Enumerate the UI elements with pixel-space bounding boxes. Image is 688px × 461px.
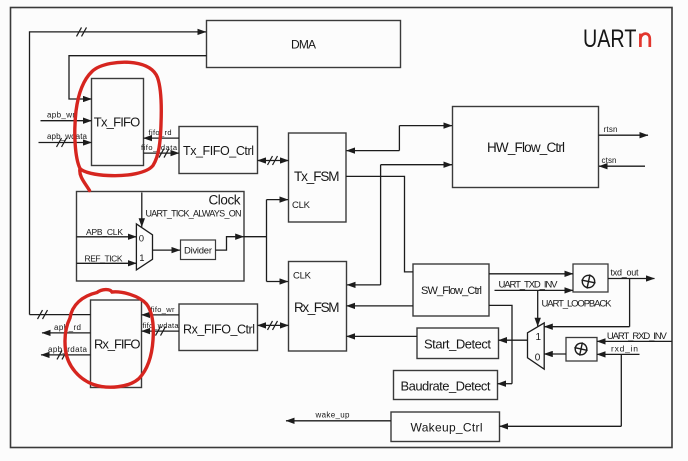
svg-text:Tx_FSM: Tx_FSM: [294, 169, 340, 184]
wire Divider output to clock box edge: [216, 237, 236, 250]
rxd_in input: [597, 344, 640, 355]
fifo_wr wire: [142, 305, 180, 315]
block Rx_FIFO_Ctrl: [179, 304, 258, 351]
svg-text:Rx_FIFO: Rx_FIFO: [94, 337, 141, 352]
fifo_rdata wire: [141, 143, 179, 158]
svg-text:Tx_FIFO_Ctrl: Tx_FIFO_Ctrl: [183, 144, 254, 158]
wire Tx_FIFO_Ctrl to Tx_FSM bidirectional: [258, 156, 289, 165]
block Tx_FIFO: [92, 79, 144, 166]
svg-text:ctsn: ctsn: [602, 156, 617, 165]
block Tx_FIFO_Ctrl: [179, 127, 258, 174]
wire SW_Flow_Ctrl to Rx_FSM: [347, 305, 414, 307]
wire DMA to Tx_FIFO: [69, 56, 207, 99]
svg-text:1: 1: [139, 253, 144, 264]
block SW_Flow_Ctrl: [413, 264, 489, 316]
wire HW_Flow_Ctrl to Rx_FSM: [347, 165, 452, 285]
svg-text:fifo_wr: fifo_wr: [151, 305, 176, 314]
svg-text:UART_LOOPBACK: UART_LOOPBACK: [542, 299, 613, 310]
wire Tx_FSM to SW_Flow_Ctrl: [346, 176, 413, 272]
ctsn input: [599, 156, 645, 166]
svg-text:UART: UART: [583, 25, 637, 53]
svg-text:APB_CLK: APB_CLK: [86, 227, 123, 237]
block Baudrate_Detect: [394, 371, 498, 400]
wake_up output: [286, 410, 391, 421]
wire mux to Divider: [153, 249, 181, 251]
svg-text:rtsn: rtsn: [604, 125, 618, 134]
wire apb bus to DMA: [30, 32, 207, 315]
svg-text:REF_TICK: REF_TICK: [85, 253, 123, 263]
svg-text:DMA: DMA: [291, 38, 316, 52]
fifo_rd wire: [144, 128, 180, 138]
block Wakeup_Ctrl: [391, 412, 500, 442]
svg-text:Tx_FIFO: Tx_FIFO: [94, 115, 141, 130]
block Start_Detect: [417, 328, 499, 359]
block Clock: [77, 192, 245, 282]
block Rx_FSM: [289, 262, 347, 352]
svg-text:1: 1: [536, 332, 542, 343]
svg-text:SW_Flow_Ctrl: SW_Flow_Ctrl: [421, 285, 482, 297]
svg-text:Divider: Divider: [184, 246, 212, 257]
UART_LOOPBACK select wire: [538, 290, 612, 326]
svg-text:UART_RXD_INV: UART_RXD_INV: [607, 331, 668, 342]
svg-text:0: 0: [139, 234, 144, 245]
title UARTn: [583, 25, 650, 53]
loopback mux: [528, 323, 545, 369]
fifo_wdata wire: [142, 321, 180, 335]
svg-text:Wakeup_Ctrl: Wakeup_Ctrl: [411, 421, 483, 435]
wire SW_Flow_Ctrl to xor U1: [489, 273, 573, 275]
svg-text:apb_rdata: apb_rdata: [48, 345, 88, 354]
wire mux to Start_Detect: [499, 339, 528, 341]
svg-text:fifo_wdata: fifo_wdata: [143, 321, 180, 330]
txd_out output: [608, 268, 655, 279]
xor gate U1 txd: [573, 264, 608, 292]
bus slash bottom: [38, 310, 48, 319]
svg-text:apb_wdata: apb_wdata: [47, 132, 88, 141]
apb_wdata input: [39, 132, 92, 147]
mux clock select wire UART_TICK_ALWAYS_ON: [141, 193, 143, 227]
wire clock distribution: [244, 200, 288, 282]
wire xor U2 to mux input 0: [544, 353, 566, 355]
red annotation circle around Tx_FIFO: [75, 62, 161, 190]
bus slash top: [77, 27, 87, 36]
xor gate U2 rxd: [566, 338, 597, 362]
rtsn output: [599, 125, 649, 135]
svg-text:Baudrate_Detect: Baudrate_Detect: [401, 379, 491, 394]
UART_TXD_INV input: [495, 279, 574, 290]
wire rxd to Wakeup_Ctrl: [500, 354, 622, 426]
svg-text:CLK: CLK: [293, 271, 312, 282]
svg-text:Start_Detect: Start_Detect: [424, 337, 491, 352]
block Divider: [181, 240, 216, 260]
wire Tx_FSM to HW_Flow_Ctrl: [347, 126, 453, 151]
svg-text:CLK: CLK: [292, 200, 311, 211]
svg-text:Rx_FSM: Rx_FSM: [294, 300, 340, 315]
svg-text:UART_TICK_ALWAYS_ON: UART_TICK_ALWAYS_ON: [146, 209, 242, 219]
svg-text:HW_Flow_Ctrl: HW_Flow_Ctrl: [487, 140, 565, 155]
svg-text:UART_TXD_INV: UART_TXD_INV: [499, 279, 559, 290]
svg-text:apb_wr: apb_wr: [47, 110, 75, 119]
block HW_Flow_Ctrl: [453, 107, 599, 188]
loopback wire txd to mux input 1: [544, 279, 629, 327]
wire Start_Detect to Rx_FSM: [347, 335, 418, 337]
apb_rd output: [42, 323, 91, 333]
block Tx_FSM: [289, 133, 347, 222]
svg-text:Rx_FIFO_Ctrl: Rx_FIFO_Ctrl: [183, 323, 255, 337]
red annotation circle around Rx_FIFO: [65, 290, 153, 388]
UART_RXD_INV input: [597, 331, 672, 342]
block DMA: [207, 21, 401, 68]
svg-text:rxd_in: rxd_in: [611, 344, 638, 354]
REF_TICK input: [77, 253, 137, 263]
svg-text:0: 0: [535, 353, 541, 364]
wire Rx_FIFO_Ctrl to Rx_FSM bidirectional: [258, 321, 289, 330]
apb_wr input: [41, 110, 92, 120]
clock mux: [136, 224, 152, 270]
apb_rdata output: [41, 345, 91, 360]
wire SW_Flow_Ctrl to Baudrate_Detect: [489, 305, 512, 383]
svg-text:txd_out: txd_out: [611, 268, 639, 278]
APB_CLK input: [77, 227, 137, 237]
svg-text:Clock: Clock: [209, 193, 241, 208]
block Rx_FIFO: [91, 300, 142, 388]
svg-text:wake_up: wake_up: [315, 410, 351, 419]
